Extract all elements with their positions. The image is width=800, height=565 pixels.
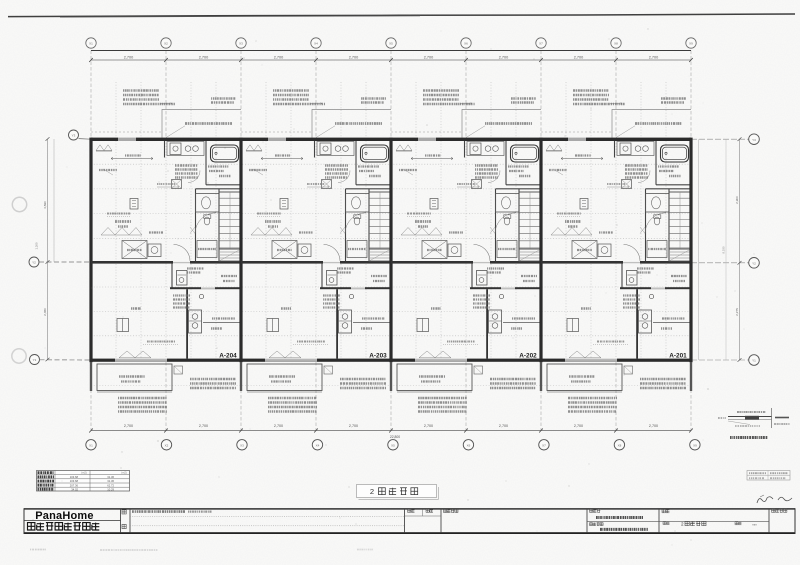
svg-text:X5: X5 bbox=[391, 443, 395, 447]
svg-text:A-201: A-201 bbox=[669, 352, 687, 359]
svg-text:X1: X1 bbox=[89, 443, 93, 447]
svg-text:Y2: Y2 bbox=[752, 261, 756, 265]
svg-text:X9: X9 bbox=[689, 42, 693, 46]
svg-text:A-204: A-204 bbox=[219, 352, 237, 359]
svg-text:2: 2 bbox=[681, 522, 684, 527]
svg-text:X2: X2 bbox=[164, 42, 168, 46]
svg-text:A-202: A-202 bbox=[519, 352, 537, 359]
svg-text:31.36: 31.36 bbox=[107, 479, 114, 483]
svg-text:Y3: Y3 bbox=[72, 134, 76, 138]
svg-text:1,260: 1,260 bbox=[35, 242, 39, 249]
svg-text:Y1: Y1 bbox=[33, 358, 37, 362]
svg-text:Y2: Y2 bbox=[32, 261, 36, 265]
svg-text:2,275: 2,275 bbox=[735, 308, 739, 316]
svg-text:2,700: 2,700 bbox=[349, 424, 358, 428]
svg-text:2,700: 2,700 bbox=[499, 424, 508, 428]
svg-text:X4: X4 bbox=[316, 443, 320, 447]
svg-text:X8: X8 bbox=[614, 42, 618, 46]
svg-text:2,700: 2,700 bbox=[574, 55, 584, 59]
svg-text:X9: X9 bbox=[693, 443, 697, 447]
svg-text:22,800: 22,800 bbox=[390, 435, 400, 439]
svg-text:2,700: 2,700 bbox=[649, 424, 658, 428]
svg-text:2,700: 2,700 bbox=[349, 55, 359, 59]
svg-text:4,890: 4,890 bbox=[43, 201, 47, 209]
svg-text:2,700: 2,700 bbox=[424, 424, 433, 428]
svg-text:PanaHome: PanaHome bbox=[35, 510, 93, 522]
svg-text:X6: X6 bbox=[464, 42, 468, 46]
svg-text:X1: X1 bbox=[89, 42, 93, 46]
svg-text:X2: X2 bbox=[165, 443, 169, 447]
svg-text:2,700: 2,700 bbox=[424, 55, 434, 59]
svg-text:X4: X4 bbox=[314, 42, 318, 46]
svg-text:2,700: 2,700 bbox=[124, 424, 133, 428]
svg-text:A-203: A-203 bbox=[369, 352, 387, 359]
svg-text:103.68: 103.68 bbox=[70, 479, 79, 483]
svg-text:2: 2 bbox=[370, 487, 374, 496]
svg-text:X6: X6 bbox=[467, 443, 471, 447]
svg-text:(m2): (m2) bbox=[81, 472, 86, 475]
svg-text:10.29: 10.29 bbox=[107, 488, 114, 492]
svg-text:2,700: 2,700 bbox=[199, 424, 208, 428]
svg-text:2,480: 2,480 bbox=[43, 308, 47, 316]
svg-text:2,700: 2,700 bbox=[649, 55, 659, 59]
svg-text:31.36: 31.36 bbox=[107, 475, 114, 479]
svg-text:62.72: 62.72 bbox=[107, 483, 114, 487]
svg-text:X3: X3 bbox=[240, 443, 244, 447]
svg-text:mm: mm bbox=[752, 522, 757, 526]
svg-text:2,900: 2,900 bbox=[735, 196, 739, 204]
svg-text:2,700: 2,700 bbox=[199, 55, 209, 59]
svg-text:2,700: 2,700 bbox=[124, 55, 134, 59]
svg-text:Y3: Y3 bbox=[752, 138, 756, 142]
svg-text:Y1: Y1 bbox=[752, 359, 756, 363]
svg-text:2,700: 2,700 bbox=[274, 55, 284, 59]
svg-text:2,700: 2,700 bbox=[574, 424, 583, 428]
svg-text:34.02: 34.02 bbox=[71, 488, 78, 492]
svg-text:X3: X3 bbox=[239, 42, 243, 46]
svg-text:207.36: 207.36 bbox=[70, 483, 79, 487]
svg-text:2,700: 2,700 bbox=[499, 55, 509, 59]
svg-text:8,190: 8,190 bbox=[722, 246, 726, 253]
svg-text:X7: X7 bbox=[539, 42, 543, 46]
svg-text:X8: X8 bbox=[618, 443, 622, 447]
svg-text:X7: X7 bbox=[542, 443, 546, 447]
svg-text:X5: X5 bbox=[389, 42, 393, 46]
svg-text:(m2): (m2) bbox=[121, 472, 126, 475]
svg-text:2,700: 2,700 bbox=[274, 424, 283, 428]
svg-text:103.68: 103.68 bbox=[70, 475, 79, 479]
